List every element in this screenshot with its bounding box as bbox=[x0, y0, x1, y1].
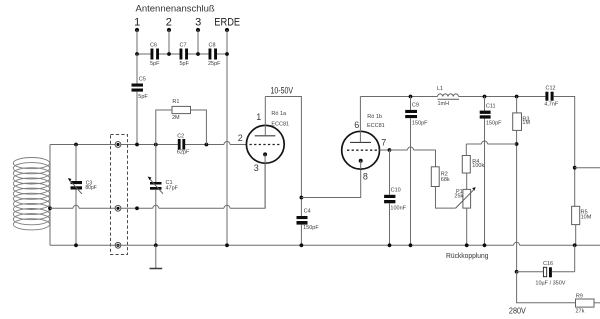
triode U1a grid dashed line bbox=[250, 144, 282, 146]
dashed chassis feed-through box bbox=[111, 135, 128, 255]
node junction dot terminal2/bus bbox=[167, 52, 171, 56]
inductor L1 bbox=[437, 86, 459, 107]
svg-text:C12: C12 bbox=[546, 86, 556, 92]
capacitor C5 bbox=[132, 54, 149, 145]
node dot C5/grid bus bbox=[135, 143, 139, 147]
svg-text:1M: 1M bbox=[522, 120, 530, 126]
node dot C9/ground bbox=[409, 243, 413, 247]
wire grid2 line to hop bbox=[390, 149, 408, 151]
svg-text:Rö 1b: Rö 1b bbox=[367, 114, 382, 120]
capacitor C8 bbox=[208, 43, 221, 67]
wire U1b anode lead up bbox=[359, 97, 361, 143]
resistor R3 bbox=[513, 97, 531, 272]
svg-text:C5: C5 bbox=[139, 77, 146, 83]
wire grid bus segment left bbox=[50, 144, 178, 146]
wire tap line segment 3 bbox=[159, 207, 224, 209]
wire ERDE vertical bbox=[226, 30, 228, 245]
svg-text:2: 2 bbox=[166, 17, 172, 29]
svg-text:5pF: 5pF bbox=[150, 61, 160, 67]
wire grid bus segment mid bbox=[185, 144, 224, 146]
capacitor C4 bbox=[297, 209, 320, 246]
triode U1b cathode dot bbox=[359, 159, 363, 163]
wire U1a anode lead up bbox=[264, 97, 266, 136]
resistor R1 bbox=[156, 99, 207, 145]
svg-text:80pF: 80pF bbox=[85, 185, 96, 191]
node dot C4 top junction bbox=[300, 196, 304, 200]
svg-text:68k: 68k bbox=[441, 177, 450, 183]
capacitor C10 bbox=[384, 150, 407, 245]
wire output branch right bbox=[575, 167, 600, 169]
svg-text:4,7nF: 4,7nF bbox=[544, 102, 559, 108]
svg-text:C6: C6 bbox=[150, 43, 157, 49]
svg-text:62pF: 62pF bbox=[177, 150, 190, 156]
wire node A to tube2 cathode bbox=[301, 169, 360, 197]
wire grid bus segment to tube bbox=[230, 144, 247, 146]
svg-text:25k: 25k bbox=[454, 194, 463, 200]
capacitor C6 bbox=[150, 43, 160, 67]
node dot C16 left junction bbox=[515, 270, 519, 274]
node dot C10/ground bbox=[388, 243, 392, 247]
capacitor C12 bbox=[544, 86, 559, 108]
svg-text:7: 7 bbox=[381, 137, 386, 147]
svg-text:150pF: 150pF bbox=[486, 120, 502, 126]
terminal dot 3 bbox=[196, 28, 200, 32]
svg-text:150pF: 150pF bbox=[303, 225, 319, 231]
terminal dot 2 bbox=[167, 28, 171, 32]
svg-text:100k: 100k bbox=[472, 163, 484, 169]
node dot on tap line bbox=[135, 206, 139, 210]
resistor R4 bbox=[462, 144, 484, 173]
svg-text:1: 1 bbox=[256, 112, 261, 122]
trimmer capacitor C1 bbox=[148, 145, 179, 246]
wire hop over C11 branch bbox=[482, 141, 488, 144]
svg-text:280V: 280V bbox=[509, 306, 526, 316]
resistor R2 bbox=[431, 167, 455, 208]
node dot ERDE/ground bbox=[225, 243, 229, 247]
svg-text:C4: C4 bbox=[304, 209, 311, 215]
svg-text:C7: C7 bbox=[180, 43, 187, 49]
svg-text:27k: 27k bbox=[576, 309, 585, 315]
node dot C4/ground bbox=[300, 243, 304, 247]
svg-text:C11: C11 bbox=[486, 103, 496, 109]
svg-text:25pF: 25pF bbox=[208, 61, 221, 67]
node dot output branch bbox=[573, 166, 577, 170]
svg-text:ECC81: ECC81 bbox=[367, 123, 385, 129]
coil L antenna: right-side wire bbox=[49, 145, 51, 246]
node dot grid2 junction bbox=[388, 148, 392, 152]
svg-text:L1: L1 bbox=[437, 86, 443, 92]
svg-text:C10: C10 bbox=[391, 187, 401, 193]
capacitor C2 bbox=[177, 134, 190, 156]
node dot C3/grid bus bbox=[74, 143, 78, 147]
svg-text:Rö 1a: Rö 1a bbox=[271, 111, 287, 117]
wire antenna cap bus segment 4 bbox=[217, 53, 227, 55]
node dot R5/ground bbox=[573, 243, 577, 247]
wire U1a cathode lead down bbox=[264, 154, 266, 208]
wire terminal 3 stub bbox=[197, 30, 199, 54]
svg-text:Rückkopplung: Rückkopplung bbox=[446, 251, 489, 260]
wire hop over ERDE on tap line bbox=[224, 205, 230, 208]
svg-text:ERDE: ERDE bbox=[214, 17, 240, 29]
node dot C11/rail bbox=[483, 95, 487, 99]
svg-text:5pF: 5pF bbox=[138, 94, 148, 100]
wire ground rail left of hop bbox=[50, 244, 514, 246]
triode U1a Roe1a circle bbox=[246, 125, 284, 163]
wire R4 to hop bbox=[466, 143, 481, 145]
node dot R3 bottom junction bbox=[515, 142, 519, 146]
node dot C1/ground bbox=[154, 243, 158, 247]
triode U1b Roe1b circle bbox=[342, 131, 380, 169]
resistor R5 bbox=[572, 206, 592, 245]
capacitor C7 bbox=[180, 43, 190, 67]
potentiometer P1 bbox=[454, 173, 475, 245]
wire terminal 2 stub bbox=[168, 30, 170, 54]
triode U1a cathode dot bbox=[263, 152, 267, 156]
wire rail L1 to C12 bbox=[459, 96, 546, 98]
node junction dot terminal1/bus bbox=[135, 52, 139, 56]
svg-text:R1: R1 bbox=[172, 99, 179, 105]
node coil tap dot bbox=[48, 206, 52, 210]
node dot P1/ground bbox=[465, 243, 469, 247]
wire ground rail right of hop bbox=[520, 244, 600, 246]
node dot C9/rail bbox=[409, 95, 413, 99]
wire hop over ERDE on grid bus bbox=[224, 142, 230, 145]
svg-text:10M: 10M bbox=[581, 215, 592, 221]
wire 280V line bbox=[517, 272, 576, 303]
svg-text:2: 2 bbox=[238, 133, 243, 143]
triode U1a anode bar bbox=[255, 135, 276, 137]
svg-text:C16: C16 bbox=[543, 261, 553, 267]
node dot C11/ground bbox=[483, 243, 487, 247]
node junction dot terminal3/bus bbox=[196, 52, 200, 56]
wire hop over C1 branch on tap line bbox=[153, 205, 159, 208]
wire U1b grid lead to junction bbox=[380, 149, 390, 151]
svg-text:Antennenanschluß: Antennenanschluß bbox=[136, 4, 215, 15]
svg-text:ECC81: ECC81 bbox=[271, 122, 289, 128]
wire hop over 280V line on ground rail bbox=[514, 242, 520, 245]
wire antenna cap bus segment 3 bbox=[188, 53, 209, 55]
svg-text:C2: C2 bbox=[177, 134, 184, 140]
feed-through terminal middle bbox=[115, 205, 121, 211]
trimmer capacitor C3 bbox=[68, 145, 97, 246]
capacitor C11 bbox=[480, 97, 502, 246]
svg-text:8: 8 bbox=[363, 172, 368, 182]
wire anode rail tube2 bbox=[360, 96, 437, 98]
coil L antenna: winding ellipses bbox=[13, 158, 49, 230]
svg-text:R9: R9 bbox=[576, 294, 583, 300]
node junction dot ERDE/bus bbox=[225, 52, 229, 56]
wire tap line segment 2 bbox=[79, 207, 153, 209]
wire antenna cap bus segment 2 bbox=[159, 53, 180, 55]
wire antenna cap bus segment 1 bbox=[137, 53, 151, 55]
wire tap line segment 1 bbox=[50, 207, 73, 209]
node dot R1 right/grid bus bbox=[205, 143, 209, 147]
feed-through terminal bottom bbox=[115, 242, 121, 248]
capacitor C16 electrolytic bbox=[517, 245, 575, 286]
wire terminal 1 stub bbox=[136, 30, 138, 54]
wire grid2 line to R2 corner bbox=[414, 150, 436, 167]
triode U1b anode bar bbox=[350, 141, 371, 143]
svg-text:100nF: 100nF bbox=[390, 206, 406, 212]
resistor R9 bbox=[576, 294, 600, 315]
wire tap line segment 4 to cathode corner bbox=[230, 163, 265, 208]
feed-through terminal top bbox=[115, 142, 121, 148]
node dot C3/ground bbox=[74, 243, 78, 247]
wire rail C12 to corner and down bbox=[554, 97, 575, 207]
svg-text:6: 6 bbox=[354, 120, 359, 130]
wire hop to R3 bottom bbox=[488, 143, 517, 145]
svg-text:3: 3 bbox=[195, 17, 201, 29]
svg-text:150pF: 150pF bbox=[412, 120, 428, 126]
wire hop over C3 branch on tap line bbox=[73, 205, 79, 208]
terminal dot 1 bbox=[135, 28, 139, 32]
svg-text:5pF: 5pF bbox=[180, 61, 190, 67]
svg-text:2M: 2M bbox=[172, 115, 180, 121]
svg-text:C8: C8 bbox=[209, 43, 216, 49]
wire anode rail tube1 bbox=[265, 97, 301, 217]
svg-text:3: 3 bbox=[254, 163, 259, 173]
node dot R3/rail bbox=[515, 95, 519, 99]
node dot C1/grid bus bbox=[154, 143, 158, 147]
wire hop over C9 on grid2 line bbox=[408, 147, 414, 150]
terminal dot ERDE bbox=[225, 28, 229, 32]
svg-text:10-50V: 10-50V bbox=[271, 86, 294, 96]
svg-text:C9: C9 bbox=[412, 103, 419, 109]
svg-text:10µF / 350V: 10µF / 350V bbox=[535, 280, 565, 286]
svg-text:1: 1 bbox=[134, 17, 140, 29]
svg-text:1mH: 1mH bbox=[438, 101, 450, 107]
ground symbol bbox=[150, 245, 163, 268]
capacitor C9 bbox=[405, 97, 428, 246]
triode U1b grid dashed line bbox=[347, 149, 377, 151]
wire U1b cathode lead down bbox=[360, 161, 362, 170]
svg-text:47pF: 47pF bbox=[166, 185, 179, 191]
